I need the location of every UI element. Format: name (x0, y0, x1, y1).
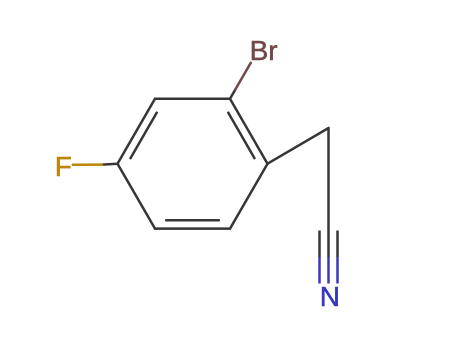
svg-text:N: N (320, 281, 340, 312)
double bond inner C5=C6 (166, 219, 219, 222)
wire C4-C5 (118, 164, 156, 229)
benzene ring outer bonds (118, 99, 329, 229)
bond C4-F gold half (73, 163, 102, 166)
wire C1-C2 (230, 99, 268, 164)
bond C2-Br maroon half (235, 63, 250, 90)
bond C1-CH2 (268, 128, 329, 164)
wire C5-C6 (155, 227, 230, 230)
double bond inner C3=C4 (131, 113, 157, 159)
double bond inner C1=C2 (228, 113, 254, 159)
wire C3-C4 (118, 99, 156, 164)
bond C4-F dark half (102, 162, 118, 165)
bond C2-Br dark half (230, 89, 235, 98)
svg-text:F: F (55, 151, 72, 182)
svg-text:Br: Br (250, 35, 278, 66)
nitrile triple bond blue halves (320, 257, 338, 284)
bond CH2-Cnitrile (327, 128, 330, 229)
nitrile triple bond dark halves (320, 229, 338, 257)
wire C2-C3 (155, 98, 230, 101)
wire C6-C1 (230, 164, 268, 229)
